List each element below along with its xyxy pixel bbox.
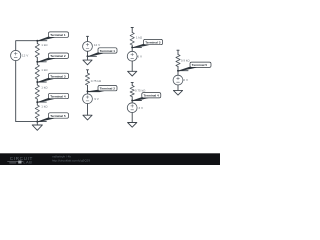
wire: [132, 45, 141, 51]
svg-text:LAB: LAB: [23, 160, 32, 165]
open stub: [177, 50, 179, 54]
open stub: [131, 28, 133, 33]
node 3 junction: [36, 81, 38, 83]
svg-text:1 kΩ: 1 kΩ: [41, 43, 48, 47]
open stub: [86, 36, 88, 41]
svg-text:Terminal 2: Terminal 2: [50, 54, 66, 58]
flag Terminal 3: [38, 73, 69, 83]
node 2 junction: [36, 61, 38, 63]
node 1 junction: [36, 40, 38, 42]
voltage source 12V: [83, 42, 93, 52]
resistor 1 kOhm: [130, 32, 143, 45]
resistor R1 1 kOhm: [35, 43, 48, 58]
wire: [132, 97, 141, 103]
svg-text:12 V: 12 V: [94, 43, 101, 47]
junction: [131, 46, 133, 48]
resistor R3 1 kOhm: [35, 85, 48, 99]
open stub: [131, 82, 133, 85]
flag Terminal 4: [133, 93, 161, 102]
wire: ladder column: [36, 41, 38, 122]
flag Terminal 2: [38, 53, 69, 63]
wire: left loop bottom: [16, 61, 47, 122]
svg-text:6 V: 6 V: [137, 54, 143, 58]
svg-text:1 kΩ: 1 kΩ: [41, 105, 48, 109]
svg-text:0.75 kΩ: 0.75 kΩ: [91, 79, 102, 83]
svg-text:Terminal 3: Terminal 3: [50, 74, 66, 78]
svg-text:3 V: 3 V: [138, 106, 144, 110]
flag Terminal 1: [88, 48, 117, 57]
svg-text:Terminal 5: Terminal 5: [192, 63, 208, 67]
wire: [131, 61, 133, 71]
svg-text:http://circuitlab.com/c/g5Q29: http://circuitlab.com/c/g5Q29: [52, 159, 90, 163]
open stub: [86, 70, 88, 73]
resistor 0.9 kOhm: [176, 55, 191, 67]
svg-text:Terminal 2: Terminal 2: [100, 87, 116, 91]
resistor 0.75 kOhm: [85, 73, 101, 85]
svg-text:0.75 kΩ: 0.75 kΩ: [135, 88, 146, 92]
ground: [128, 71, 137, 76]
wire: tap stubs to flags: [37, 62, 46, 102]
node 5 junction: [36, 121, 38, 123]
wire: [131, 113, 133, 123]
svg-text:Terminal 4: Terminal 4: [144, 94, 160, 98]
flag Terminal 5: [179, 62, 212, 71]
voltage source 0V: [173, 75, 183, 85]
resistor 0.75 kOhm: [130, 86, 146, 97]
svg-text:Terminal 5: Terminal 5: [50, 114, 66, 118]
svg-text:0 V: 0 V: [183, 78, 189, 82]
wire: left loop top: [16, 41, 47, 51]
node 4 junction: [36, 101, 38, 103]
resistor R2 1 kOhm: [35, 65, 48, 80]
svg-text:Terminal 4: Terminal 4: [50, 95, 66, 99]
wire: [88, 51, 97, 56]
flag Terminal 4: [38, 93, 69, 103]
wire: [178, 67, 188, 76]
junction: [87, 90, 89, 92]
wire: [177, 85, 179, 90]
voltage source 9V: [83, 94, 93, 104]
flag Terminal 1: [38, 32, 69, 42]
svg-text:Terminal 1: Terminal 1: [50, 33, 66, 37]
resistor R4 1 kOhm: [35, 105, 48, 119]
wire: [87, 104, 89, 116]
voltage source 6V: [127, 51, 137, 61]
junction: [87, 55, 89, 57]
svg-text:1 kΩ: 1 kΩ: [136, 35, 143, 39]
voltage source V1 12V: [11, 50, 21, 60]
footer bar: [0, 153, 220, 165]
ground: [128, 123, 137, 128]
svg-text:0.9 kΩ: 0.9 kΩ: [181, 59, 191, 63]
junction: [131, 100, 133, 102]
svg-text:12 V: 12 V: [22, 54, 29, 58]
svg-text:1 kΩ: 1 kΩ: [41, 85, 48, 89]
voltage source 3V: [127, 103, 137, 113]
svg-text:Terminal 1: Terminal 1: [100, 49, 116, 53]
flag Terminal 3: [133, 39, 163, 48]
ground: [83, 56, 92, 65]
ground (ladder bottom): [32, 122, 42, 131]
ground: [83, 115, 92, 120]
flag Terminal 5: [38, 113, 69, 123]
flag Terminal 2: [88, 86, 117, 93]
junction: [177, 70, 179, 72]
svg-text:Terminal 3: Terminal 3: [145, 41, 161, 45]
svg-text:9 V: 9 V: [94, 97, 100, 101]
svg-text:1 kΩ: 1 kΩ: [41, 68, 48, 72]
wire: [88, 85, 97, 94]
ground: [173, 90, 182, 95]
